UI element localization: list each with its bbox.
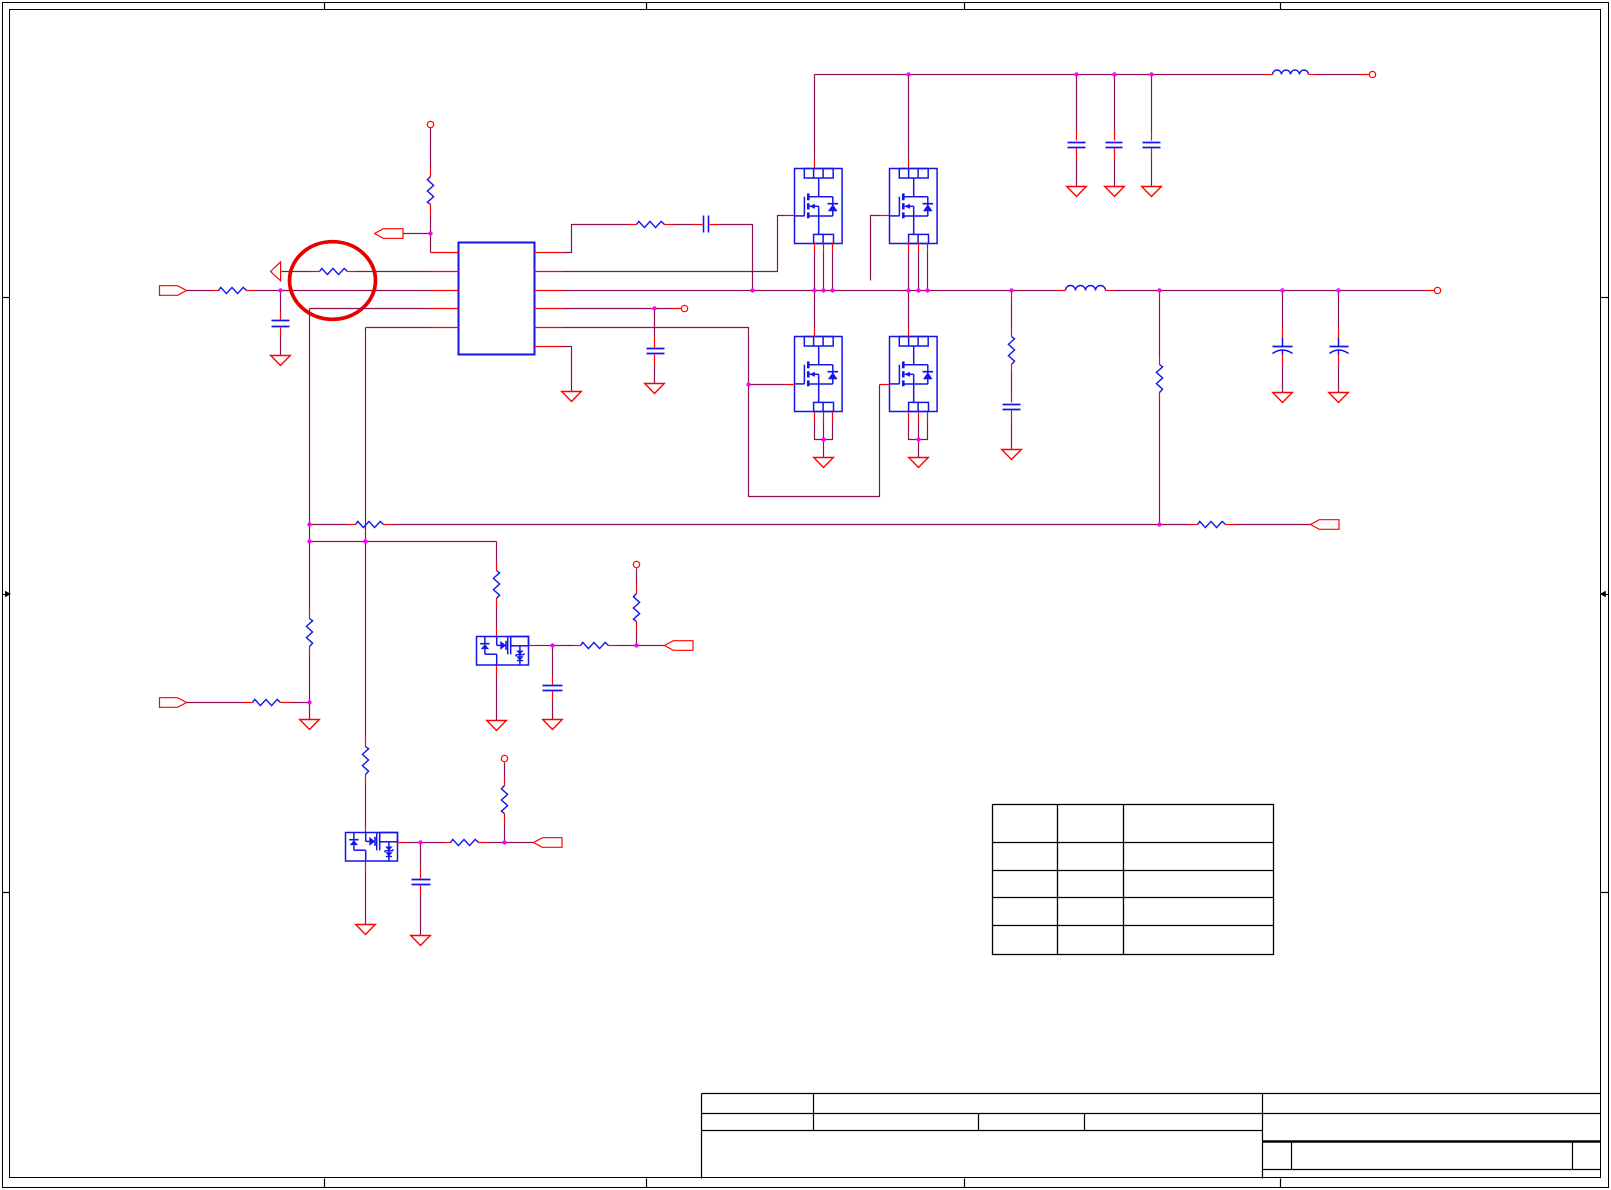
wire R16 to junction <box>291 702 310 704</box>
wire R13 to D2 <box>365 784 367 827</box>
wire junction2 up to R15 <box>504 823 506 843</box>
pin stubs U1 right side <box>535 253 563 347</box>
pin stub Q3 drain <box>814 328 816 337</box>
wire FB bus main <box>393 524 1160 526</box>
node VIN-C4 <box>1074 72 1078 76</box>
zone tick right 1 <box>1601 297 1609 299</box>
pin stub L1 left <box>1265 74 1273 76</box>
inductor L2 <box>1066 286 1106 291</box>
pin stub C7 top <box>1011 395 1013 403</box>
wire R4 to C3 <box>674 224 693 226</box>
pin stub D1 top <box>496 628 498 637</box>
pin stub R12 top <box>636 585 638 594</box>
wire C6 to ground <box>1151 159 1153 187</box>
pin stub R8 right <box>1226 524 1235 526</box>
wire junction2 to flag <box>505 842 534 844</box>
pin stub R14 right <box>479 842 488 844</box>
pin stub C11 top <box>1338 328 1340 338</box>
ground below C10 <box>1273 393 1293 403</box>
pin stub VOUT terminal <box>1425 290 1435 292</box>
ground below D2 <box>356 925 376 935</box>
terminal circle VIN-out <box>1369 71 1375 77</box>
wire R15 to terminal <box>504 763 506 778</box>
wire C2 to ground <box>654 365 656 384</box>
junction node dots <box>278 72 1340 844</box>
wires Q3 source join bar <box>815 422 833 440</box>
pin stub R1 bottom <box>430 205 432 215</box>
node SW-Q1c <box>830 288 834 292</box>
node SW-Q1a <box>812 288 816 292</box>
pin stub R10 top <box>496 563 498 571</box>
wire VIN rail <box>815 74 1265 76</box>
wire D2 to junction <box>407 842 421 844</box>
capacitor C10 polarized <box>1273 338 1293 355</box>
pin stub C8 bottom <box>552 692 554 701</box>
node D1 out <box>550 643 554 647</box>
wire VOUT rail <box>1115 290 1425 292</box>
pin stub R11 left <box>573 645 581 647</box>
pin stub L2 right <box>1106 290 1115 292</box>
capacitor C4 <box>1068 143 1086 148</box>
node SW-R5 <box>1009 288 1013 292</box>
port flag COMP <box>160 698 187 708</box>
resistor R15 <box>501 786 507 814</box>
wire C3 to SW bus <box>719 225 753 291</box>
pin stub C6 top <box>1151 132 1153 141</box>
wire C6 top <box>1151 75 1153 132</box>
output capacitor C10 drop <box>1282 291 1284 328</box>
transistor Q1 <box>795 169 843 244</box>
wire FB bus right segment <box>1160 524 1190 526</box>
ground below R9 <box>300 720 320 730</box>
wire Q2 gate stub net <box>871 216 880 281</box>
ground below Q3 <box>814 458 834 468</box>
pin stub R4 right <box>665 224 674 226</box>
pin stub C2 bottom <box>654 355 656 365</box>
node VOUT-R6 <box>1157 288 1161 292</box>
ground below C6 <box>1142 187 1162 197</box>
capacitor C2 <box>647 349 665 354</box>
node BOOT2 junction <box>502 840 506 844</box>
wire C9 to ground <box>420 895 422 936</box>
terminal circle VCC pullup <box>427 121 433 127</box>
node SW-Q2a <box>906 288 910 292</box>
pin stub R13 top <box>365 739 367 747</box>
resistor R11 <box>581 642 609 648</box>
node VREG junction <box>652 306 656 310</box>
zone tick left 1 <box>3 297 10 299</box>
resistor R12 <box>633 594 639 622</box>
node VIN-C5 <box>1112 72 1116 76</box>
pin stub Q1 drain <box>814 159 816 169</box>
wire to R5 <box>1011 299 1013 329</box>
annotation red circle <box>290 242 376 320</box>
pin stub C6 bottom <box>1151 149 1153 159</box>
centering arrow left <box>3 591 12 597</box>
wire C1 to ground <box>280 337 282 356</box>
pin stub R3 right <box>247 290 256 292</box>
resistor R3 <box>219 287 247 293</box>
wire R12 to terminal <box>636 569 638 585</box>
inductor L1 <box>1273 70 1309 75</box>
node input-C1 <box>278 288 282 292</box>
wire D1 to junction <box>538 645 553 647</box>
pin stub C10 bottom <box>1282 355 1284 365</box>
pin stub R6 top <box>1159 357 1161 365</box>
wire pin6 right to ground <box>563 347 572 392</box>
port flag BOOT1 <box>665 641 694 651</box>
wire junction to ground <box>309 703 311 720</box>
capacitor C8 <box>543 686 563 691</box>
pin stub D2 top <box>365 827 367 833</box>
wire junction loop to Q4 gate <box>749 385 880 497</box>
pin stubs Q1 source/pad bottom <box>815 243 833 253</box>
wire junction down to C2 <box>654 309 656 337</box>
wire arrow to R2 <box>282 271 311 273</box>
wire SS column down <box>365 328 367 739</box>
diode pack D2 <box>346 833 398 862</box>
wire Q3 source bar to ground <box>823 440 825 458</box>
wire BST row <box>310 541 497 543</box>
wire junction to R11 <box>553 645 573 647</box>
wire R10 to D1 <box>496 608 498 628</box>
ground below pin6 <box>562 392 582 402</box>
pin stub C11 bottom <box>1338 355 1340 365</box>
wire C4 to ground <box>1076 159 1078 187</box>
revision table <box>993 805 1274 955</box>
wire C10 to ground <box>1282 365 1284 393</box>
pin stub R8 left <box>1190 524 1198 526</box>
wire pin5 right to lower gates <box>563 328 749 385</box>
pin stub Q1 gate <box>786 215 795 217</box>
zone tick top 2 <box>646 3 648 10</box>
node EN junction <box>428 231 432 235</box>
pin stub R5 bottom <box>1011 365 1013 373</box>
port flag VOUT-SENSE <box>1311 520 1340 530</box>
wire VIN drop to Q2 drain <box>908 75 910 159</box>
wire junction to Q3 gate <box>749 384 786 386</box>
pin stub Q3 gate <box>786 384 795 386</box>
resistor R9 <box>306 619 312 647</box>
node VIN-Q2 <box>906 72 910 76</box>
terminal circle BST2 <box>501 755 507 761</box>
wire junction up to R1 <box>430 215 432 234</box>
node lower-gate junction <box>746 382 750 386</box>
zone tick bottom 4 <box>1280 1179 1282 1188</box>
pin stub C7 bottom <box>1011 411 1013 419</box>
pin stub Q2 gate <box>880 215 890 217</box>
capacitor C5 <box>1106 143 1123 148</box>
wire SW bus drop to Q4 drain <box>908 291 910 328</box>
zone tick top 3 <box>964 3 966 10</box>
capacitor C1 <box>272 321 290 327</box>
pin stub C8 top <box>552 677 554 685</box>
wire junction down to C1 <box>280 291 282 312</box>
terminal circle BST1 <box>633 561 639 567</box>
ground below C2 <box>645 384 665 394</box>
pin stub D1 right <box>529 645 538 647</box>
pin stub R4 left <box>629 224 637 226</box>
pin stubs Q4 source bottom <box>909 413 928 422</box>
wire input to R3 <box>187 290 211 292</box>
pin stub C4 bottom <box>1076 149 1078 159</box>
pin stub R16 left <box>243 702 253 704</box>
resistor R16 <box>253 699 281 705</box>
wire pin2 right to Q1 gate <box>563 216 786 272</box>
node D2 out <box>418 840 422 844</box>
diode pack D1 <box>477 637 529 666</box>
pin stub C4 top <box>1076 132 1078 141</box>
wire R6 to FB bus <box>1159 401 1161 525</box>
wire R8 to flag <box>1235 524 1311 526</box>
capacitor C9 <box>412 880 431 885</box>
terminal circle VREG <box>681 305 687 311</box>
pin stub D2 bottom <box>365 862 367 871</box>
op-amp U1 controller IC body <box>459 243 535 355</box>
pin stub R12 bottom <box>636 622 638 631</box>
pin stub R6 bottom <box>1159 393 1161 401</box>
ground below C1 <box>271 356 291 366</box>
pin stub C9 top <box>420 870 422 879</box>
node VOUT-C10 <box>1280 288 1284 292</box>
resistor R8 <box>1198 521 1226 527</box>
node VIN-C6 <box>1149 72 1153 76</box>
wire C4 top <box>1076 75 1078 132</box>
wire D1 to ground <box>496 675 498 721</box>
wire FB bus left segment <box>310 524 348 526</box>
pin stub R13 bottom <box>365 775 367 784</box>
capacitor C6 <box>1143 143 1161 148</box>
capacitor C11 polarized <box>1330 338 1349 355</box>
resistor R6 <box>1156 365 1162 393</box>
port arrow SYNC <box>271 262 281 281</box>
node SW-Q1b <box>821 288 825 292</box>
pin stub D1 bottom <box>496 666 498 675</box>
pin stub C3 left <box>693 224 703 226</box>
capacitor C7 <box>1003 405 1021 410</box>
wire junction down to C8 <box>552 646 554 677</box>
pin stub Q2 drain <box>908 159 910 169</box>
transistor Q3 <box>795 337 843 412</box>
ground below C4 <box>1067 187 1087 197</box>
zone tick bottom 1 <box>324 1179 326 1188</box>
pin stub VCC terminal <box>1361 74 1370 76</box>
wire junction down to C9 <box>420 843 422 870</box>
pin stub L2 left <box>1057 290 1066 292</box>
pin stub C5 bottom <box>1114 149 1116 159</box>
resistor R10 <box>493 571 499 599</box>
wire C5 to ground <box>1114 159 1116 187</box>
pin stub C3 right <box>710 224 719 226</box>
zone tick right 2 <box>1601 892 1609 894</box>
wires Q4 source join bar <box>909 422 928 440</box>
wire junction to R14 <box>421 842 443 844</box>
ground below C5 <box>1105 187 1125 197</box>
pin stub R15 bottom <box>504 814 506 823</box>
wire R1 to terminal <box>430 128 432 168</box>
pin stub R2 left <box>311 271 320 273</box>
pin stub test point <box>673 308 682 310</box>
pin stub Q4 drain <box>908 328 910 337</box>
pin stub C10 top <box>1282 328 1284 338</box>
ground below C8 <box>543 720 563 730</box>
wire C5 top <box>1114 75 1116 132</box>
pin stub Q4 gate <box>880 384 890 386</box>
node BST row mid <box>363 539 367 543</box>
pin stubs Q3 source bottom <box>815 413 833 422</box>
wire C11 to ground <box>1338 365 1340 393</box>
pin stub R5 top <box>1011 329 1013 337</box>
wire L1 to VCC terminal <box>1317 74 1361 76</box>
zone tick bottom 2 <box>646 1179 648 1188</box>
pin stub R16 right <box>281 702 291 704</box>
wire D2 to ground <box>365 871 367 925</box>
wire pin5 left to SS column <box>366 327 431 329</box>
wire C8 to ground <box>552 701 554 720</box>
centering arrow right <box>1600 591 1609 597</box>
zone tick top 1 <box>324 3 326 10</box>
pin stub R11 right <box>609 645 618 647</box>
snubber resistor R5 drop: pin stub <box>1011 291 1013 299</box>
pin stub R1 top <box>430 168 432 177</box>
pin stub C1 bottom <box>280 328 282 337</box>
pin stub C1 top <box>280 312 282 320</box>
pin stub R14 left <box>443 842 451 844</box>
zone tick left 2 <box>3 892 10 894</box>
pin stub L1 right <box>1309 74 1317 76</box>
capacitor C3 series <box>704 216 709 233</box>
pin stub C9 bottom <box>420 886 422 895</box>
pin stub R7 right <box>384 524 393 526</box>
wires Q1 source to SW bus <box>815 253 833 291</box>
pin stub C2 top <box>654 337 656 348</box>
resistor R1 <box>427 177 433 205</box>
resistor R2 <box>320 268 348 274</box>
wire R5 to C7 <box>1011 373 1013 395</box>
transistor Q4 <box>890 337 938 412</box>
wire VIN left drop to Q1 drain <box>814 75 816 159</box>
wire R11 to junction2 <box>618 645 637 647</box>
pin stub R10 bottom <box>496 599 498 608</box>
wire Q4 source bar to ground <box>918 440 920 458</box>
node EN pullup: wire junction to pin1 <box>430 234 432 253</box>
feedback divider top: pin stub <box>1159 291 1161 299</box>
title block <box>702 1094 1601 1179</box>
node VOUT-C11 <box>1336 288 1340 292</box>
wire BST column down to R10 <box>496 542 498 563</box>
node COMP junction <box>307 700 311 704</box>
transistor Q2 <box>890 169 938 244</box>
pin stub R15 top <box>504 778 506 786</box>
wire junction to flag <box>403 233 431 235</box>
node FB right <box>1157 522 1161 526</box>
ground below Q4 <box>909 458 929 468</box>
wire R9 to junction <box>309 655 311 703</box>
ground below C11 <box>1329 393 1349 403</box>
wire to R6 <box>1159 299 1161 357</box>
pin stub R3 left <box>211 290 219 292</box>
pin stub R2 right <box>348 271 356 273</box>
pin stubs Q2 source/pad bottom <box>909 243 928 253</box>
port flag EN <box>375 229 404 239</box>
wire FB column down <box>309 309 311 610</box>
pin stub C5 top <box>1114 132 1116 141</box>
wire SW bus drop to Q3 drain <box>814 291 816 328</box>
wire pin4 right to test point <box>563 308 673 310</box>
pin stub R9 bottom <box>309 647 311 655</box>
wire C7 to ground <box>1011 419 1013 450</box>
port flag VIN-IN <box>160 286 187 296</box>
wire R2 to pin2 <box>356 271 431 273</box>
port flag BOOT2 <box>534 838 563 848</box>
wire pin4 left to FB column <box>310 308 431 310</box>
wire R14 to junction2 <box>488 842 505 844</box>
resistor R4 <box>637 221 665 227</box>
node SW-C3 <box>750 288 754 292</box>
wire junction2 up to R12 <box>636 631 638 646</box>
wire flag to R16 <box>187 702 243 704</box>
pin stub R9 top <box>309 610 311 619</box>
ground below C9 <box>411 936 431 946</box>
resistor R5 <box>1008 337 1014 365</box>
wire pin1 right riser <box>563 225 629 253</box>
zone tick top 4 <box>1280 3 1282 10</box>
node Q3 source bar <box>821 437 825 441</box>
resistor R14 <box>451 839 479 845</box>
wire junction2 to flag <box>637 645 665 647</box>
node SW-Q2b <box>916 288 920 292</box>
wires Q2 source to SW bus <box>909 253 928 291</box>
ground below D1 <box>487 721 507 731</box>
resistor R13 <box>362 747 368 775</box>
wire R3 to pin3 <box>256 290 431 292</box>
node Q4 source bar <box>916 437 920 441</box>
ground below C7 <box>1002 450 1022 460</box>
output capacitor C11 drop <box>1338 291 1340 328</box>
pin stub D2 right <box>398 842 407 844</box>
terminal circle VOUT <box>1434 287 1440 293</box>
zone tick bottom 3 <box>964 1179 966 1188</box>
node FB left <box>307 522 311 526</box>
node BST row left <box>307 539 311 543</box>
wire SW bus <box>563 290 1057 292</box>
node SW-Q2c <box>925 288 929 292</box>
resistor R7 <box>356 521 384 527</box>
node BOOT1 junction <box>634 643 638 647</box>
pin stubs U1 left side <box>431 253 459 328</box>
pin stub R7 left <box>348 524 356 526</box>
